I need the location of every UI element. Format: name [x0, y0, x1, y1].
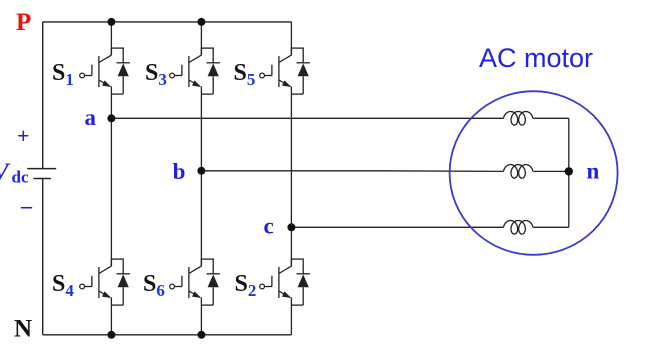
- wire: node b to S6 collector: [200, 171, 202, 266]
- transistor S2 (IGBT with antiparallel diode): [260, 258, 310, 305]
- node n junction dot: [565, 167, 573, 175]
- svg-text:S1: S1: [52, 60, 74, 89]
- wire: S6 emitter to bottom rail: [200, 297, 202, 334]
- svg-text:S4: S4: [52, 271, 74, 300]
- svg-text:S6: S6: [143, 271, 165, 300]
- svg-text:–: –: [20, 193, 33, 218]
- svg-text:a: a: [85, 105, 97, 130]
- transistor S5 (IGBT with antiparallel diode): [260, 47, 310, 94]
- junction dot bottom rail leg2: [197, 331, 205, 339]
- wire: bottom rail N: [43, 334, 292, 336]
- wire: node c to S2 collector: [290, 227, 292, 266]
- wire: phase b to motor: [201, 170, 503, 173]
- junction dot top rail leg2: [197, 18, 205, 26]
- battery Vdc negative plate: [33, 178, 51, 180]
- svg-text:+: +: [17, 123, 30, 148]
- transistor S4 (IGBT with antiparallel diode): [80, 258, 130, 305]
- wire: S4 emitter to bottom rail: [110, 297, 112, 334]
- wire: left rail upper (P to battery +): [42, 22, 44, 169]
- wire: neutral vertical joining three phases: [568, 118, 570, 227]
- svg-text:dc: dc: [12, 168, 29, 187]
- svg-text:b: b: [173, 159, 186, 184]
- node a junction dot: [107, 114, 115, 122]
- svg-text:c: c: [264, 213, 274, 238]
- svg-text:AC motor: AC motor: [479, 43, 593, 73]
- svg-text:S5: S5: [234, 60, 256, 89]
- inductor phase b winding: [504, 165, 533, 179]
- transistor S6 (IGBT with antiparallel diode): [170, 258, 220, 305]
- AC motor circle: [450, 91, 618, 255]
- transistor S3 (IGBT with antiparallel diode): [170, 47, 220, 94]
- wire: coil c to right corner: [533, 226, 569, 228]
- svg-text:P: P: [16, 9, 31, 36]
- svg-text:S3: S3: [145, 60, 167, 89]
- node b junction dot: [197, 167, 205, 175]
- wire: S2 emitter to bottom rail: [290, 297, 292, 334]
- wire: left rail lower (battery - to N): [42, 179, 44, 335]
- wire: leg1 collector lead S1: [110, 22, 112, 55]
- junction dot top rail leg1: [107, 18, 115, 26]
- wire: phase c to motor: [291, 226, 503, 228]
- inductor phase c winding: [504, 221, 533, 235]
- wire: S1 emitter to node a: [110, 86, 112, 118]
- wire: leg3 collector lead S5: [290, 22, 292, 55]
- inductor phase a winding: [504, 112, 533, 126]
- wire: leg2 collector lead S3: [200, 22, 202, 55]
- wire: top rail P: [43, 21, 292, 23]
- wire: S3 emitter to node b: [200, 86, 202, 170]
- wire: phase a to motor: [111, 117, 503, 119]
- svg-text:V: V: [0, 159, 11, 186]
- junction dot bottom rail leg1: [107, 331, 115, 339]
- svg-text:N: N: [14, 316, 32, 343]
- svg-text:S2: S2: [235, 271, 257, 300]
- wire: S5 emitter to node c: [290, 86, 292, 227]
- wire: node a to S4 collector: [110, 118, 112, 266]
- wire: coil b to node n: [533, 170, 569, 172]
- battery Vdc positive plate: [27, 168, 56, 170]
- wire: coil a to right corner: [533, 117, 569, 119]
- transistor S1 (IGBT with antiparallel diode): [80, 47, 130, 94]
- svg-text:n: n: [587, 158, 600, 183]
- node c junction dot: [287, 223, 295, 231]
